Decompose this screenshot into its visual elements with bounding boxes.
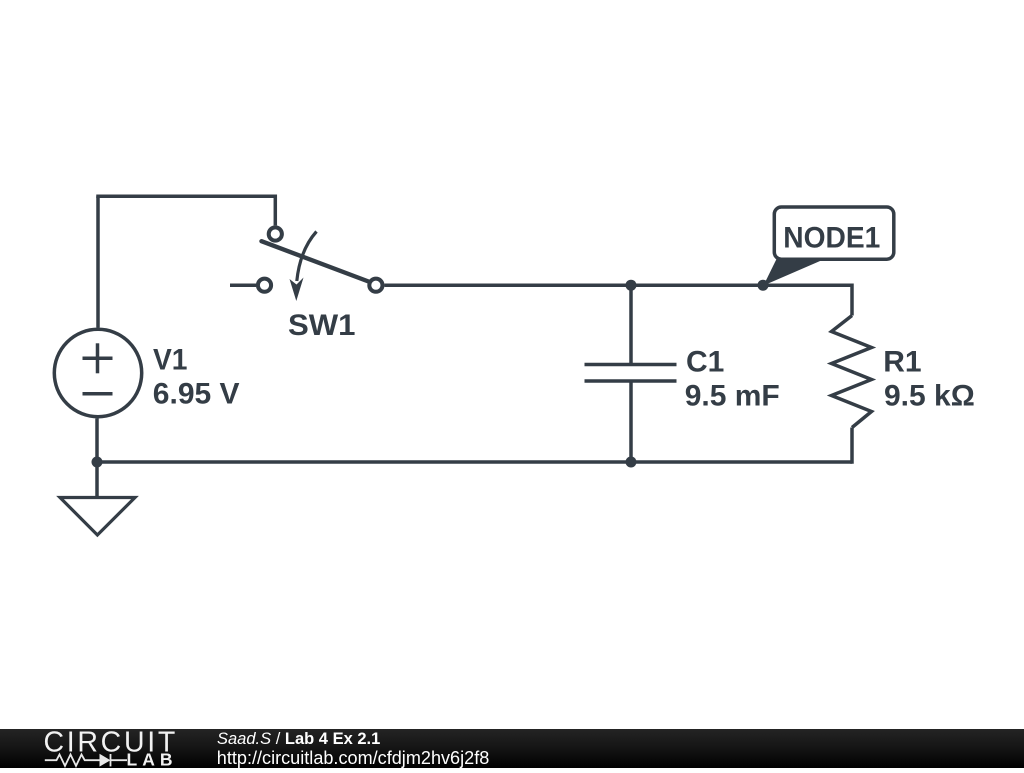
junction at C1 top [626, 280, 637, 291]
svg-text:9.5 kΩ: 9.5 kΩ [884, 379, 975, 412]
voltage source V1 [54, 329, 141, 416]
junction at C1 bottom [626, 457, 637, 468]
SW1 pivot terminal [269, 227, 282, 240]
SW1 open terminal [258, 279, 271, 292]
wire V1 bottom lead [95, 419, 99, 463]
svg-text:6.95 V: 6.95 V [153, 377, 240, 410]
node NODE1 junction [758, 280, 769, 291]
svg-text:V1: V1 [153, 343, 188, 376]
svg-text:LAB: LAB [127, 750, 178, 768]
wire to ground [95, 462, 99, 498]
wire V1 top lead to top-left corner [96, 196, 100, 327]
wire switch output to resistor corner [385, 283, 853, 287]
capacitor C1 [585, 365, 677, 382]
ground [60, 498, 135, 536]
wire switch open-throw stub [230, 283, 256, 287]
svg-text:9.5 mF: 9.5 mF [685, 380, 780, 413]
wire bottom horizontal [97, 460, 852, 464]
wire resistor top lead [850, 284, 854, 316]
SW1 actuation arc [297, 232, 317, 282]
SW1 closed terminal [369, 279, 382, 292]
node NODE1 callout pointer [764, 258, 828, 286]
wire capacitor C1 bottom lead [629, 381, 633, 462]
wire down to switch pivot [274, 195, 278, 226]
SW1 arrowhead [290, 278, 304, 302]
svg-text:R1: R1 [883, 345, 921, 378]
svg-text:Saad.S / Lab 4 Ex 2.1: Saad.S / Lab 4 Ex 2.1 [217, 730, 380, 748]
footer bar [0, 729, 1024, 768]
svg-text:C1: C1 [686, 346, 724, 379]
node NODE1 callout box [774, 207, 894, 259]
junction at V1 bottom [92, 457, 103, 468]
svg-text:NODE1: NODE1 [783, 222, 880, 255]
wire capacitor C1 top lead [629, 285, 633, 364]
SW1 blade [262, 241, 369, 281]
CircuitLab logo resistor-diode glyph [45, 754, 127, 766]
switch SW1 [258, 227, 383, 301]
svg-text:http://circuitlab.com/cfdjm2hv: http://circuitlab.com/cfdjm2hv6j2f8 [217, 748, 490, 768]
svg-text:SW1: SW1 [288, 309, 356, 342]
wire top horizontal [96, 194, 277, 198]
resistor R1 [832, 316, 872, 428]
wire resistor bottom lead [850, 428, 854, 464]
